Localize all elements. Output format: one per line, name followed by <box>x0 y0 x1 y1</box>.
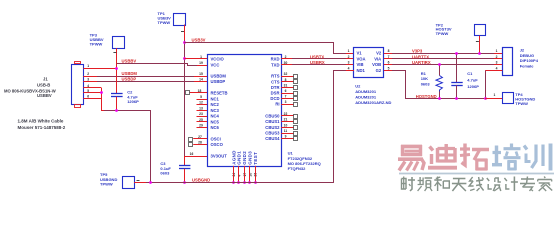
svg-text:0603: 0603 <box>160 170 170 175</box>
svg-text:NC4: NC4 <box>211 114 220 119</box>
svg-text:USBDP: USBDP <box>122 77 137 82</box>
svg-text:TPWW: TPWW <box>436 31 449 36</box>
svg-text:1: 1 <box>496 49 498 53</box>
svg-text:28: 28 <box>198 141 202 145</box>
svg-text:USB3V: USB3V <box>192 38 206 43</box>
svg-text:4: 4 <box>348 67 350 71</box>
svg-text:12: 12 <box>199 101 203 105</box>
svg-text:RXD: RXD <box>271 56 280 61</box>
svg-text:J1: J1 <box>43 76 48 81</box>
svg-text:3: 3 <box>87 78 89 82</box>
svg-text:GND1: GND1 <box>237 151 242 165</box>
svg-text:1: 1 <box>494 93 496 97</box>
svg-text:29: 29 <box>199 124 203 128</box>
svg-text:24: 24 <box>232 173 236 177</box>
svg-text:18: 18 <box>198 89 202 93</box>
svg-text:DTR: DTR <box>271 85 280 90</box>
svg-text:RI: RI <box>275 102 279 107</box>
svg-text:CTS: CTS <box>271 79 280 84</box>
svg-text:V2: V2 <box>376 51 382 56</box>
svg-text:1: 1 <box>200 55 202 59</box>
svg-text:10K: 10K <box>421 76 428 81</box>
svg-text:15: 15 <box>199 72 203 76</box>
svg-text:USBTX: USBTX <box>310 54 324 59</box>
svg-text:27: 27 <box>198 135 202 139</box>
svg-text:ADUM3201: ADUM3201 <box>355 94 377 99</box>
svg-text:Mouser 571-1487588-2: Mouser 571-1487588-2 <box>18 125 66 130</box>
svg-text:CBUS3: CBUS3 <box>265 131 280 136</box>
svg-text:6: 6 <box>285 89 287 93</box>
svg-text:CBUS1: CBUS1 <box>265 119 280 124</box>
svg-text:USBBV: USBBV <box>122 59 137 64</box>
svg-text:2: 2 <box>348 55 350 59</box>
svg-text:G2: G2 <box>376 68 382 73</box>
svg-text:7: 7 <box>285 95 287 99</box>
svg-text:USBGND: USBGND <box>192 177 210 182</box>
svg-text:2: 2 <box>496 55 498 59</box>
svg-text:U2: U2 <box>355 83 361 88</box>
svg-text:16: 16 <box>190 152 194 156</box>
svg-text:OSCI: OSCI <box>211 136 221 141</box>
svg-text:VIA: VIA <box>374 56 381 61</box>
svg-text:1: 1 <box>87 64 89 68</box>
svg-text:20: 20 <box>248 173 252 177</box>
svg-text:USB-B: USB-B <box>37 82 50 87</box>
svg-text:CBUS4: CBUS4 <box>265 136 280 141</box>
svg-text:USBBV: USBBV <box>37 93 52 98</box>
svg-text:ND1: ND1 <box>357 68 366 73</box>
svg-text:NC2: NC2 <box>211 102 220 107</box>
svg-text:8: 8 <box>388 49 390 53</box>
svg-text:1: 1 <box>348 49 350 53</box>
svg-text:TPWW: TPWW <box>515 101 528 106</box>
svg-text:ADUM3201ARZ-ND: ADUM3201ARZ-ND <box>355 100 391 105</box>
svg-text:R1: R1 <box>421 71 427 76</box>
svg-text:USBDM: USBDM <box>122 71 138 76</box>
svg-text:25: 25 <box>199 118 203 122</box>
svg-text:19: 19 <box>199 61 203 65</box>
svg-text:TPWW: TPWW <box>158 20 171 25</box>
svg-text:Female: Female <box>520 63 535 68</box>
svg-text:AGND: AGND <box>231 150 236 165</box>
svg-text:RTS: RTS <box>271 74 280 79</box>
svg-text:FTQFN32: FTQFN32 <box>288 166 307 171</box>
svg-text:3: 3 <box>285 100 287 104</box>
svg-text:TXD: TXD <box>271 63 279 68</box>
svg-text:23: 23 <box>199 112 203 116</box>
svg-text:DSR: DSR <box>271 91 280 96</box>
svg-text:UARTTX: UARTTX <box>412 54 429 59</box>
svg-text:ADUM3201: ADUM3201 <box>355 89 377 94</box>
svg-text:5: 5 <box>200 95 202 99</box>
svg-text:CBUS0: CBUS0 <box>265 113 280 118</box>
svg-text:14: 14 <box>199 77 203 81</box>
svg-text:3V3OUT: 3V3OUT <box>211 154 228 159</box>
svg-text:TPWW: TPWW <box>100 181 113 186</box>
svg-text:V1: V1 <box>357 51 363 56</box>
svg-text:DEBUG: DEBUG <box>520 53 534 58</box>
svg-text:V3P3: V3P3 <box>412 48 423 53</box>
svg-text:TPWW: TPWW <box>90 41 103 46</box>
svg-text:UARTIRX: UARTIRX <box>412 60 431 65</box>
svg-text:5: 5 <box>388 67 390 71</box>
svg-text:VCC: VCC <box>211 63 220 68</box>
svg-text:3: 3 <box>496 61 498 65</box>
svg-text:USBRX: USBRX <box>310 60 325 65</box>
svg-text:TEST: TEST <box>253 152 258 165</box>
svg-text:CBUS2: CBUS2 <box>265 125 280 130</box>
svg-text:13: 13 <box>199 106 203 110</box>
svg-text:VOA: VOA <box>357 56 366 61</box>
svg-text:RESETB: RESETB <box>211 90 228 95</box>
svg-text:11: 11 <box>284 129 288 133</box>
svg-text:2: 2 <box>87 72 89 76</box>
svg-text:OSCO: OSCO <box>211 142 224 147</box>
svg-text:21: 21 <box>284 118 288 122</box>
svg-text:31: 31 <box>284 83 288 87</box>
svg-text:22: 22 <box>284 112 288 116</box>
svg-text:DIP100P4: DIP100P4 <box>520 58 539 63</box>
svg-text:9: 9 <box>285 135 287 139</box>
svg-text:NC1: NC1 <box>211 97 220 102</box>
svg-text:1206P: 1206P <box>467 84 479 89</box>
svg-text:VOB: VOB <box>372 62 381 67</box>
svg-text:4: 4 <box>496 67 498 71</box>
svg-text:HOSTGND: HOSTGND <box>416 94 437 99</box>
svg-text:J2: J2 <box>520 48 525 53</box>
svg-text:GND3: GND3 <box>248 151 253 165</box>
svg-text:0603: 0603 <box>421 82 431 87</box>
svg-text:VCCIO: VCCIO <box>211 56 225 61</box>
svg-text:NC3: NC3 <box>211 108 220 113</box>
svg-text:VIB: VIB <box>357 62 364 67</box>
svg-text:NC6: NC6 <box>211 125 220 130</box>
svg-text:6: 6 <box>87 95 89 99</box>
svg-text:10: 10 <box>284 123 288 127</box>
svg-text:DCD: DCD <box>270 96 279 101</box>
svg-text:4.7uF: 4.7uF <box>467 77 478 82</box>
svg-text:8: 8 <box>285 78 287 82</box>
svg-text:USBDP: USBDP <box>211 79 226 84</box>
svg-text:1206P: 1206P <box>127 99 139 104</box>
svg-text:1.8M A/B White Cable: 1.8M A/B White Cable <box>18 118 64 123</box>
svg-text:C1: C1 <box>467 71 473 76</box>
svg-text:NC5: NC5 <box>211 119 220 124</box>
svg-text:USBDM: USBDM <box>211 74 227 79</box>
svg-text:32: 32 <box>284 72 288 76</box>
svg-text:GND2: GND2 <box>242 151 247 165</box>
svg-text:3: 3 <box>348 61 350 65</box>
